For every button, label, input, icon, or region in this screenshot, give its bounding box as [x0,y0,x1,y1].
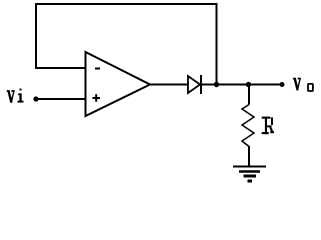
wire R top lead [248,85,250,105]
op-amp U1 [86,52,151,116]
label Vo [293,78,313,91]
wire feedback right vertical [216,3,218,85]
op-amp plus pin label [93,94,101,102]
wire op-amp output [149,84,188,86]
label Vi [7,89,24,103]
wire diode to output node [201,84,249,86]
wire R bottom lead [248,146,250,166]
wire noninverting input [36,98,86,100]
wire output to Vo terminal [249,84,283,86]
junction feedback/output [214,82,219,87]
wire feedback left vertical [35,3,37,68]
junction R branch [246,82,251,87]
wire feedback top [35,3,218,5]
label R [262,117,274,135]
diode D1 [188,75,201,94]
node Vo terminal [280,82,285,87]
op-amp minus pin label [95,68,100,70]
resistor R [242,105,254,147]
node Vi terminal [33,96,38,101]
ground [233,167,266,182]
wire inverting input [35,67,86,69]
